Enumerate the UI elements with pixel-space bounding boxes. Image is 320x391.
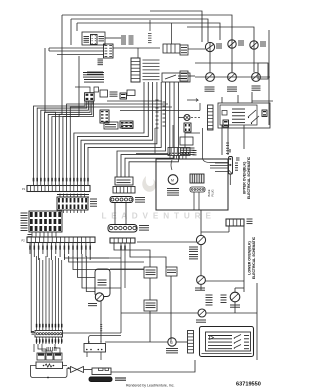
wire	[38, 344, 46, 353]
connector bar J9	[115, 177, 133, 185]
connector grid CN1	[57, 197, 88, 210]
label	[121, 35, 126, 37]
wire	[202, 128, 204, 158]
wire	[221, 97, 223, 103]
fuse F1	[89, 377, 112, 382]
label	[87, 71, 103, 73]
wire	[29, 243, 31, 255]
connector bar J4	[35, 331, 63, 338]
wire	[137, 241, 196, 243]
connector P10	[100, 110, 109, 123]
relay box K1	[218, 103, 270, 128]
wire	[36, 318, 38, 331]
svg-text:M: M	[170, 341, 173, 345]
ignitor box	[92, 368, 111, 375]
wire	[45, 112, 56, 185]
svg-text:ELECTRICAL SCHEMATIC: ELECTRICAL SCHEMATIC	[252, 236, 256, 279]
wire	[209, 42, 211, 52]
wire	[268, 30, 270, 103]
connector P5	[180, 71, 188, 81]
connector P8	[131, 58, 140, 82]
inline connector CN3	[110, 197, 133, 203]
connector grid CN2	[29, 211, 62, 232]
wire	[195, 76, 270, 78]
connector P15	[188, 331, 194, 354]
relay K4	[144, 300, 157, 311]
wire	[234, 288, 236, 292]
svg-text:UPPER OVEN(BLK): UPPER OVEN(BLK)	[243, 162, 247, 194]
valve V1	[71, 367, 78, 373]
wire	[105, 37, 121, 39]
latch motor M4	[168, 338, 176, 346]
connector bar J8	[226, 219, 244, 226]
label	[29, 246, 31, 250]
ignitor IG3	[54, 353, 62, 360]
ignitor IG1	[37, 353, 45, 360]
wire	[31, 243, 35, 333]
oven light L2	[95, 293, 103, 301]
surface switch SW2	[228, 73, 237, 82]
wire	[73, 256, 144, 270]
svg-text:PLUG: PLUG	[211, 189, 215, 196]
switch S2	[180, 137, 193, 145]
inline connector P9	[190, 187, 205, 192]
wire	[206, 312, 257, 314]
wire	[187, 27, 254, 41]
wire	[36, 337, 38, 344]
connector P12	[120, 93, 127, 99]
connector P6	[208, 105, 214, 130]
label	[33, 178, 35, 182]
wire	[107, 100, 162, 102]
ignitor IG2	[46, 353, 53, 360]
oven light L1	[184, 115, 190, 121]
label	[110, 91, 118, 93]
wire	[114, 203, 116, 225]
wire	[150, 11, 202, 42]
svg-text:M: M	[171, 179, 174, 183]
wire	[31, 366, 68, 378]
wire	[89, 336, 92, 344]
svg-text:LOWER OVEN(BLK): LOWER OVEN(BLK)	[248, 241, 252, 274]
fan M3	[230, 292, 240, 302]
door switch S7	[95, 269, 110, 297]
surface element SE3	[250, 41, 258, 49]
wire	[190, 23, 220, 40]
svg-text:L E A D V E N T U R E: L E A D V E N T U R E	[102, 212, 213, 221]
label	[156, 99, 159, 101]
relay K5	[163, 44, 180, 53]
connector bar J3	[110, 238, 135, 243]
terminal block TB1	[82, 32, 105, 45]
label	[235, 162, 238, 164]
wire	[36, 256, 38, 318]
svg-text:ELECTRICAL SCHEMATIC: ELECTRICAL SCHEMATIC	[247, 156, 251, 199]
relay K3	[166, 267, 177, 276]
svg-text:P2: P2	[22, 239, 26, 243]
wire	[74, 82, 144, 186]
wire	[84, 369, 93, 371]
wire	[121, 312, 198, 314]
wire	[114, 243, 150, 267]
wire	[71, 19, 208, 42]
label	[57, 194, 89, 196]
wire	[258, 63, 268, 79]
connector bar J1	[27, 186, 90, 192]
module box	[156, 159, 228, 210]
label	[163, 101, 166, 103]
inline connector CN4	[108, 225, 137, 233]
svg-text:BAKE: BAKE	[207, 189, 211, 196]
wire	[44, 48, 46, 112]
connector P11	[120, 121, 133, 128]
connector P13	[229, 157, 233, 175]
connector P1	[104, 44, 114, 58]
connector P16	[184, 123, 191, 132]
connector bar J10	[113, 187, 135, 194]
surface element SE1	[205, 42, 214, 51]
connector P7	[190, 174, 204, 183]
switch S3	[104, 122, 118, 129]
wire	[110, 268, 144, 270]
svg-text:Rendered by LeadVenture, Inc.: Rendered by LeadVenture, Inc.	[126, 383, 174, 387]
relay K2	[144, 267, 157, 278]
wire	[64, 254, 121, 258]
wire	[188, 48, 205, 50]
label	[206, 294, 213, 296]
oven light L3	[197, 276, 206, 285]
wire	[67, 104, 100, 186]
wire	[205, 280, 244, 282]
switch S6	[100, 90, 108, 97]
wire	[171, 23, 173, 44]
wire	[120, 110, 200, 112]
lamp L4	[198, 309, 206, 317]
wire	[221, 125, 223, 155]
wire	[243, 226, 245, 292]
convection motor M1	[168, 175, 178, 185]
surface switch SW3	[252, 73, 261, 82]
connector P3	[180, 45, 188, 55]
terminal strip TS1	[84, 344, 106, 353]
control board A1	[200, 327, 254, 357]
cooling fan M2	[196, 235, 205, 244]
bake element E1	[36, 362, 63, 369]
wire	[105, 341, 168, 343]
svg-text:63719550: 63719550	[236, 382, 261, 388]
switch S5	[162, 73, 190, 82]
wire	[34, 102, 86, 186]
svg-text:P1: P1	[22, 187, 26, 191]
wire	[111, 360, 195, 372]
wire	[172, 125, 174, 148]
connector bar J6	[168, 148, 190, 156]
surface element SE2	[228, 40, 236, 48]
surface switch SW1	[206, 73, 215, 82]
wire	[62, 15, 232, 40]
wire	[77, 22, 190, 24]
switch S4	[122, 123, 133, 129]
connector P2	[83, 72, 104, 74]
wire	[49, 47, 104, 49]
connector bar J2	[27, 237, 95, 243]
